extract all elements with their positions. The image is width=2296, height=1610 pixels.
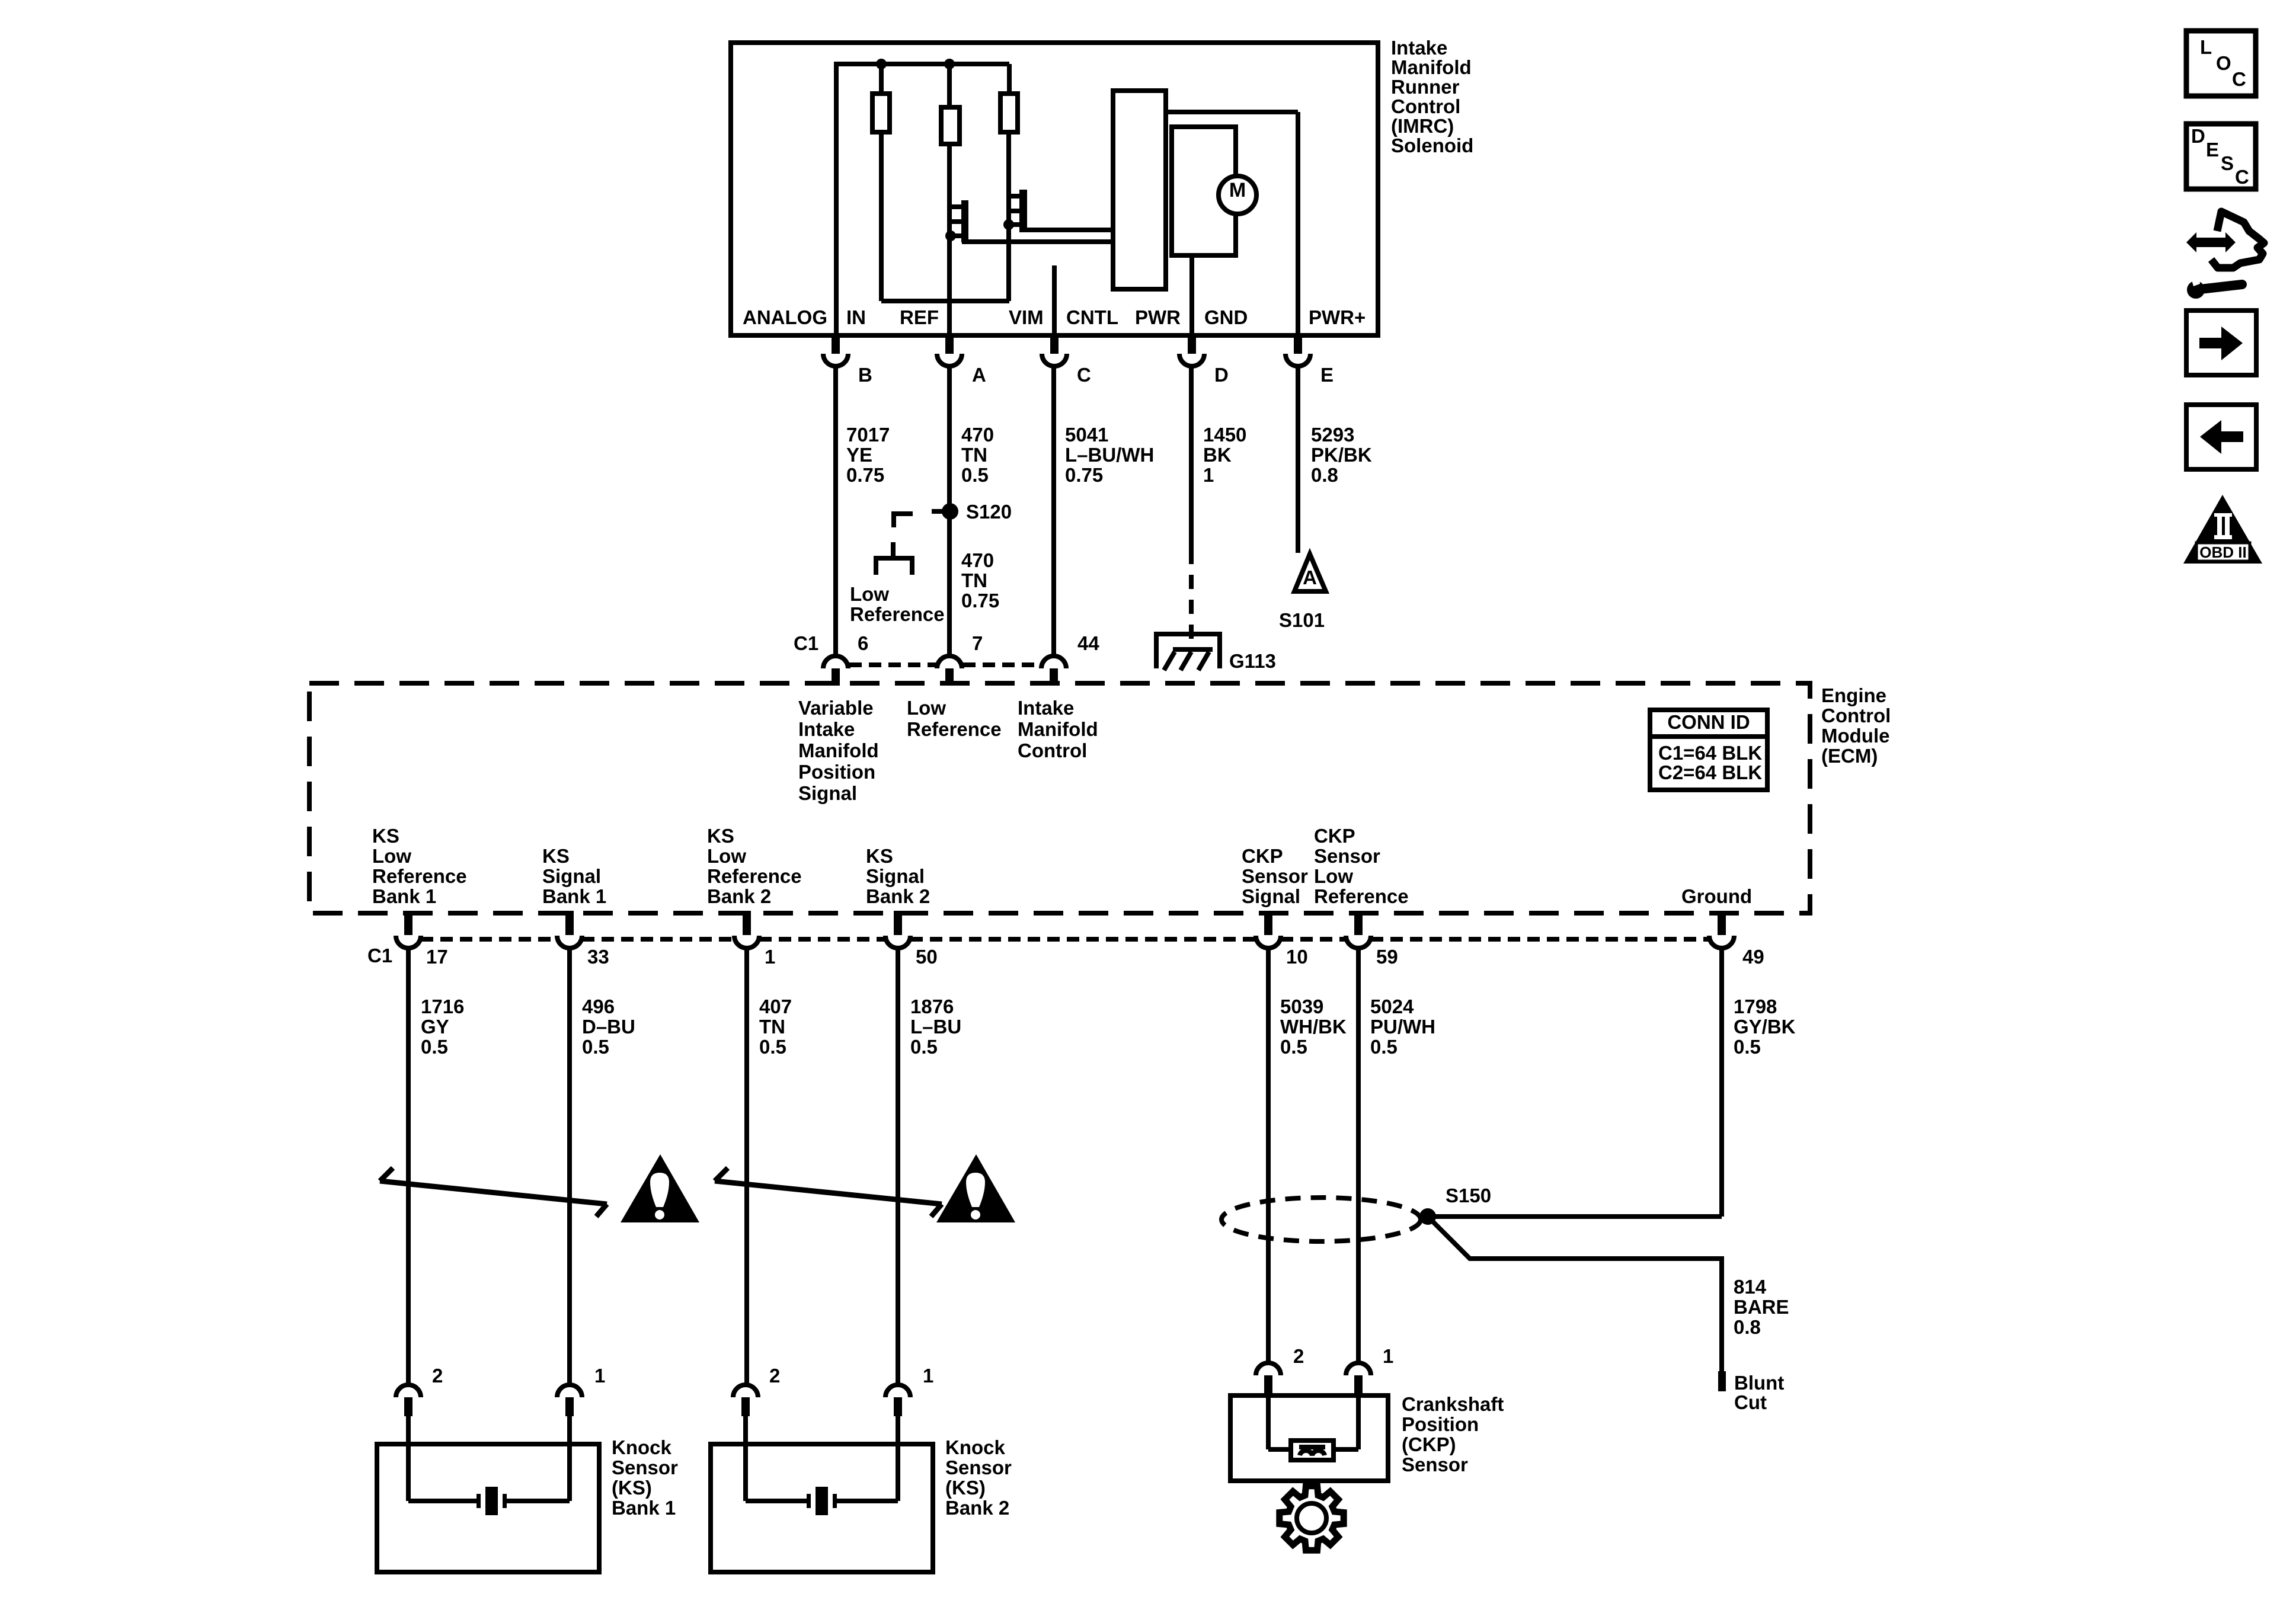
svg-text:Runner: Runner	[1391, 76, 1460, 98]
reluctor gear icon	[1280, 1486, 1344, 1550]
svg-text:Solenoid: Solenoid	[1391, 135, 1473, 156]
dashed stub from S120 (Low Reference)	[894, 514, 913, 527]
svg-text:PU/WH: PU/WH	[1370, 1016, 1435, 1038]
wire 1450 BK (circuit D)	[1189, 364, 1194, 550]
svg-text:GND: GND	[1204, 306, 1248, 328]
svg-text:IN: IN	[846, 306, 866, 328]
splice S150	[1419, 1208, 1436, 1225]
svg-text:TN: TN	[961, 569, 987, 591]
knock inner wires	[743, 1416, 748, 1501]
driver block	[1113, 91, 1166, 289]
svg-text:C: C	[2232, 68, 2246, 90]
svg-text:44: 44	[1077, 632, 1099, 654]
motor housing block	[1172, 127, 1236, 255]
wire 1798 GY/BK (pin 49)	[1719, 947, 1724, 1217]
svg-text:Intake: Intake	[1391, 37, 1447, 59]
wire: REF vertical	[947, 144, 952, 335]
svg-text:Bank 1: Bank 1	[372, 885, 436, 907]
svg-text:17: 17	[426, 946, 448, 968]
svg-text:PK/BK: PK/BK	[1311, 444, 1372, 466]
svg-text:A: A	[1303, 566, 1317, 588]
svg-text:Blunt: Blunt	[1734, 1372, 1784, 1394]
wire 1716 GY (pin 17)	[406, 947, 411, 1385]
transistor Q1	[961, 200, 968, 242]
transistor Q2	[1019, 190, 1027, 232]
svg-text:C: C	[2235, 166, 2249, 188]
junction dot on bus at R2	[944, 59, 955, 69]
wire 5293 PK/BK (circuit E)	[1296, 364, 1300, 553]
wire: top bus	[834, 62, 1009, 66]
wire 5039 WH/BK (pin 10)	[1266, 947, 1271, 1364]
svg-text:KS: KS	[866, 845, 893, 867]
svg-text:Bank 2: Bank 2	[945, 1497, 1009, 1519]
svg-text:407: 407	[759, 996, 792, 1017]
svg-text:(IMRC): (IMRC)	[1391, 115, 1454, 137]
OBD II triangle icon	[2183, 495, 2262, 564]
ECM pin 7	[937, 656, 962, 668]
svg-text:Control: Control	[1391, 95, 1460, 117]
svg-text:(CKP): (CKP)	[1402, 1433, 1456, 1455]
connector pin C of IMRC	[1050, 335, 1059, 354]
svg-text:GY: GY	[421, 1016, 449, 1038]
svg-text:814: 814	[1734, 1276, 1767, 1298]
svg-text:(KS): (KS)	[612, 1477, 652, 1499]
svg-text:Control: Control	[1018, 740, 1087, 761]
svg-text:Position: Position	[1402, 1413, 1479, 1435]
svg-text:0.5: 0.5	[961, 464, 989, 486]
svg-text:GY/BK: GY/BK	[1734, 1016, 1796, 1038]
svg-text:470: 470	[961, 549, 994, 571]
svg-text:M: M	[1229, 179, 1246, 201]
wire 407 TN (pin 1)	[744, 947, 749, 1385]
svg-text:Cut: Cut	[1734, 1391, 1767, 1413]
connector pin E of IMRC	[1294, 335, 1302, 354]
ECM top connector dashed line	[849, 662, 936, 667]
svg-text:470: 470	[961, 424, 994, 446]
svg-text:D: D	[1214, 364, 1229, 386]
svg-text:Sensor: Sensor	[1314, 845, 1380, 867]
svg-text:Crankshaft: Crankshaft	[1402, 1393, 1504, 1415]
svg-text:C1: C1	[367, 945, 392, 966]
svg-text:E: E	[1320, 364, 1334, 386]
knock sensor pins bank 1	[396, 1385, 421, 1397]
wire: S150 bare drain	[1428, 1217, 1722, 1371]
svg-text:WH/BK: WH/BK	[1280, 1016, 1347, 1038]
svg-text:Reference: Reference	[1314, 885, 1409, 907]
ECM pin 17	[404, 911, 412, 935]
wire: VIM branch vertical	[1006, 132, 1011, 301]
svg-text:B: B	[858, 364, 872, 386]
CKP inner wires	[1266, 1395, 1271, 1449]
wire: resistor common bottom	[881, 299, 1009, 303]
svg-text:1716: 1716	[421, 996, 464, 1017]
svg-text:1450: 1450	[1203, 424, 1246, 446]
motor M1 circle	[1219, 176, 1256, 214]
ECM pin 49	[1718, 911, 1726, 935]
connector pin A of IMRC	[945, 335, 954, 354]
ECM pin 33	[565, 911, 574, 935]
wire 1876 L-BU (pin 50)	[896, 947, 900, 1385]
svg-text:0.5: 0.5	[1734, 1036, 1761, 1058]
ECM pin 50	[894, 911, 902, 935]
blunt cut	[1718, 1371, 1726, 1391]
svg-text:D: D	[2191, 125, 2205, 147]
svg-text:S120: S120	[966, 501, 1012, 523]
svg-text:496: 496	[582, 996, 615, 1017]
svg-text:L–BU: L–BU	[910, 1016, 961, 1038]
svg-text:0.5: 0.5	[1280, 1036, 1307, 1058]
svg-text:TN: TN	[961, 444, 987, 466]
knock sensor (KS) bank 1 box	[377, 1444, 599, 1572]
svg-text:Reference: Reference	[907, 718, 1002, 740]
svg-text:0.75: 0.75	[961, 590, 999, 612]
svg-text:Intake: Intake	[1018, 697, 1074, 719]
wire 5041 L-BU/WH (circuit C)	[1051, 364, 1056, 654]
svg-text:Reference: Reference	[372, 865, 467, 887]
svg-text:KS: KS	[707, 825, 734, 847]
splice S101 triangle	[1294, 554, 1326, 591]
wire 5024 PU/WH (pin 59)	[1356, 947, 1361, 1364]
wire 470 TN (circuit A)	[947, 364, 952, 654]
svg-text:BK: BK	[1203, 444, 1232, 466]
svg-text:33: 33	[587, 946, 609, 968]
svg-text:L: L	[2200, 36, 2212, 58]
svg-text:5293: 5293	[1311, 424, 1354, 446]
wire 7017 YE (circuit B)	[833, 364, 838, 654]
svg-text:S150: S150	[1446, 1185, 1491, 1206]
svg-text:Bank 1: Bank 1	[542, 885, 606, 907]
svg-text:CONN ID: CONN ID	[1667, 711, 1750, 733]
svg-text:REF: REF	[900, 306, 939, 328]
svg-text:(ECM): (ECM)	[1821, 745, 1878, 767]
svg-text:Reference: Reference	[850, 603, 945, 625]
svg-text:Control: Control	[1821, 705, 1891, 726]
knock sensor (KS) bank 2 box	[711, 1444, 933, 1572]
svg-text:Engine: Engine	[1821, 684, 1886, 706]
piezo element	[807, 1494, 811, 1508]
svg-text:1: 1	[1203, 464, 1214, 486]
svg-text:S101: S101	[1279, 609, 1325, 631]
svg-text:C1=64 BLK: C1=64 BLK	[1658, 742, 1762, 764]
svg-text:0.5: 0.5	[1370, 1036, 1398, 1058]
connector pin B of IMRC	[832, 335, 840, 354]
svg-text:Signal: Signal	[1242, 885, 1300, 907]
svg-text:L–BU/WH: L–BU/WH	[1065, 444, 1154, 466]
svg-text:KS: KS	[542, 845, 570, 867]
svg-text:BARE: BARE	[1734, 1296, 1789, 1318]
wire: Q1 to driver block	[962, 239, 1113, 244]
wire: CNTL stub	[1052, 265, 1057, 335]
svg-text:10: 10	[1286, 946, 1308, 968]
svg-text:E: E	[2206, 139, 2219, 161]
svg-text:Reference: Reference	[707, 865, 802, 887]
wire: IN vertical (ANALOG/IN divider)	[834, 62, 839, 335]
svg-text:OBD II: OBD II	[2199, 543, 2246, 561]
ECM pin 1	[743, 911, 751, 935]
svg-text:VIM: VIM	[1009, 306, 1044, 328]
connector pin D of IMRC	[1188, 335, 1196, 354]
LOC icon	[2186, 31, 2256, 96]
svg-text:0.5: 0.5	[759, 1036, 786, 1058]
svg-text:5039: 5039	[1280, 996, 1323, 1017]
svg-text:2: 2	[769, 1365, 780, 1387]
svg-text:CKP: CKP	[1314, 825, 1355, 847]
svg-text:1798: 1798	[1734, 996, 1777, 1017]
svg-text:Low: Low	[850, 583, 889, 605]
svg-text:5041: 5041	[1065, 424, 1108, 446]
svg-text:Knock: Knock	[612, 1436, 672, 1458]
svg-text:Module: Module	[1821, 725, 1889, 747]
svg-text:(KS): (KS)	[945, 1477, 986, 1499]
svg-text:0.75: 0.75	[1065, 464, 1103, 486]
svg-text:TN: TN	[759, 1016, 785, 1038]
svg-text:Low: Low	[372, 845, 411, 867]
right arrow icon	[2186, 311, 2256, 375]
svg-text:0.5: 0.5	[421, 1036, 448, 1058]
left arrow icon	[2186, 405, 2256, 469]
wire: S150 to pin49 drain	[1428, 1214, 1722, 1219]
svg-text:0.8: 0.8	[1311, 464, 1338, 486]
wire 496 D-BU (pin 33)	[567, 947, 572, 1385]
ECM bottom connector dashed line	[421, 937, 557, 942]
resistor R3	[1007, 64, 1012, 96]
svg-text:CNTL: CNTL	[1066, 306, 1118, 328]
svg-text:0.75: 0.75	[846, 464, 884, 486]
warning triangle 1	[621, 1154, 699, 1222]
svg-text:Sensor: Sensor	[1242, 865, 1308, 887]
svg-text:C: C	[1077, 364, 1091, 386]
svg-text:PWR: PWR	[1135, 306, 1181, 328]
DESC icon	[2186, 124, 2256, 189]
splice S120	[942, 503, 958, 520]
svg-text:0.8: 0.8	[1734, 1316, 1761, 1338]
svg-text:Low: Low	[907, 697, 946, 719]
warning triangle 2	[936, 1154, 1015, 1222]
svg-text:Sensor: Sensor	[945, 1457, 1012, 1478]
CKP pickup coil	[1291, 1441, 1334, 1460]
svg-text:D–BU: D–BU	[582, 1016, 635, 1038]
svg-text:1876: 1876	[910, 996, 954, 1017]
junction dot on bus at R1	[876, 59, 887, 69]
svg-text:Bank 2: Bank 2	[866, 885, 930, 907]
svg-text:Knock: Knock	[945, 1436, 1006, 1458]
svg-text:S: S	[2221, 152, 2234, 174]
ground G113	[1156, 634, 1220, 668]
svg-text:Sensor: Sensor	[1402, 1454, 1468, 1475]
svg-text:Bank 2: Bank 2	[707, 885, 771, 907]
svg-text:Ground: Ground	[1681, 885, 1752, 907]
svg-text:Variable: Variable	[798, 697, 874, 719]
svg-text:0.5: 0.5	[582, 1036, 609, 1058]
crossing symbol KS bank2 pair	[715, 1181, 942, 1204]
IMRC solenoid box	[731, 43, 1378, 335]
svg-text:C1: C1	[794, 632, 818, 654]
svg-text:Intake: Intake	[798, 718, 855, 740]
svg-text:7017: 7017	[846, 424, 890, 446]
wire: GND from housing	[1189, 255, 1194, 335]
svg-text:O: O	[2216, 52, 2231, 74]
CKP sensor pins	[1256, 1363, 1281, 1375]
knock sensor pins bank 2	[733, 1385, 758, 1397]
svg-text:0.5: 0.5	[910, 1036, 938, 1058]
resistor R2	[947, 64, 952, 110]
knock inner wires	[406, 1416, 411, 1501]
svg-text:7: 7	[972, 632, 983, 654]
wire: Q2 to driver block	[1027, 228, 1113, 232]
svg-text:KS: KS	[372, 825, 399, 847]
svg-text:1: 1	[594, 1365, 605, 1387]
svg-text:49: 49	[1742, 946, 1764, 968]
CKP sensor box	[1230, 1395, 1388, 1481]
svg-text:59: 59	[1376, 946, 1398, 968]
svg-text:6: 6	[858, 632, 868, 654]
ECM pin 10	[1264, 911, 1272, 935]
svg-text:5024: 5024	[1370, 996, 1414, 1017]
svg-text:Low: Low	[707, 845, 746, 867]
ECM pin 59	[1354, 911, 1363, 935]
svg-text:2: 2	[1293, 1345, 1304, 1367]
svg-text:Manifold: Manifold	[798, 740, 879, 761]
svg-text:Signal: Signal	[542, 865, 601, 887]
svg-text:ANALOG: ANALOG	[743, 306, 827, 328]
diagnostic icon (arrows, outline, wrench)	[2186, 232, 2236, 252]
svg-text:1: 1	[1383, 1345, 1393, 1367]
svg-text:YE: YE	[846, 444, 872, 466]
svg-text:Signal: Signal	[866, 865, 925, 887]
shield dashed ellipse	[1221, 1198, 1421, 1241]
svg-text:Low: Low	[1314, 865, 1353, 887]
svg-text:Bank 1: Bank 1	[612, 1497, 676, 1519]
svg-text:2: 2	[432, 1365, 443, 1387]
svg-text:Signal: Signal	[798, 782, 857, 804]
svg-text:G113: G113	[1229, 650, 1276, 672]
ECM dashed box	[309, 683, 1810, 913]
ECM pin 44	[1041, 656, 1066, 668]
svg-text:50: 50	[916, 946, 938, 968]
svg-text:PWR+: PWR+	[1309, 306, 1366, 328]
resistor R1	[879, 64, 884, 96]
svg-text:Position: Position	[798, 761, 875, 783]
crossing symbol KS bank1 pair	[380, 1181, 607, 1204]
svg-text:C2=64 BLK: C2=64 BLK	[1658, 761, 1762, 783]
svg-text:A: A	[972, 364, 986, 386]
ECM pin 6	[823, 656, 848, 668]
CONN ID table	[1650, 710, 1767, 790]
svg-text:Manifold: Manifold	[1391, 56, 1472, 78]
svg-text:Sensor: Sensor	[612, 1457, 678, 1478]
svg-text:Manifold: Manifold	[1018, 718, 1098, 740]
wire: PWR+ from driver	[1166, 110, 1298, 114]
svg-text:1: 1	[765, 946, 775, 968]
svg-text:CKP: CKP	[1242, 845, 1283, 867]
svg-text:1: 1	[923, 1365, 933, 1387]
piezo element	[477, 1494, 481, 1508]
